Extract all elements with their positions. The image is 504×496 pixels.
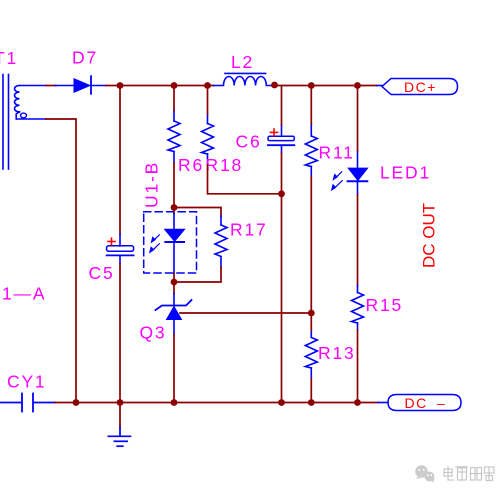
transformer T1 bottom pin <box>17 118 47 120</box>
resistor R17 <box>215 216 227 267</box>
wire: node into opto box <box>173 208 175 214</box>
wire: R6 bottom to opto node <box>173 163 175 208</box>
svg-text:1—A: 1—A <box>2 284 46 304</box>
resistor R15 <box>352 286 364 331</box>
transformer T1 top pin <box>20 85 47 87</box>
svg-text:R11: R11 <box>319 143 355 163</box>
wire: T1 bottom down left rail <box>46 119 76 403</box>
junction at R18 top <box>204 82 211 89</box>
svg-text:T1: T1 <box>0 48 18 68</box>
wire: R13 node to R13 top <box>310 313 312 331</box>
port DC+ <box>382 79 458 95</box>
svg-text:Q3: Q3 <box>140 323 167 343</box>
diode D7 <box>55 76 106 94</box>
wire: Q3 to R13 node <box>180 312 311 314</box>
junction at R11/R13 node <box>308 310 315 317</box>
svg-text:LED1: LED1 <box>380 162 431 182</box>
wire: opto cathode to lower node <box>173 274 175 283</box>
wire: LED1 cathode to R15 <box>357 195 359 286</box>
svg-text:R18: R18 <box>206 155 244 175</box>
junction bottom rail at ground <box>117 399 124 406</box>
wire: L2 to DC+ port <box>276 85 377 87</box>
opto U1-B dashed box <box>144 212 197 273</box>
wire: R17 top branch <box>174 208 221 217</box>
LED1 arrows <box>331 172 342 191</box>
junction at C5 top branch <box>117 82 124 89</box>
ground stub wire <box>119 403 121 428</box>
svg-text:DC OUT: DC OUT <box>420 203 439 268</box>
wire: D7 cathode to L2 <box>106 85 214 87</box>
junction at L2 right end <box>271 82 278 89</box>
junction at opto anode node <box>171 204 178 211</box>
wire: top rail to R18 <box>207 86 209 115</box>
wire: R13 bottom to bottom rail <box>310 379 312 403</box>
junction at opto cathode node <box>171 279 178 286</box>
LED LED1 <box>348 151 368 195</box>
ground symbol <box>108 428 130 447</box>
junction bottom rail at x=357.5 <box>354 399 361 406</box>
wire: top rail to C6 <box>281 86 283 126</box>
opto U1-B LED <box>165 214 185 274</box>
wire: top rail to R11 <box>310 86 312 125</box>
wire: Q3 anode to bottom rail <box>173 335 175 403</box>
junction bottom rail at x=311.3 <box>308 399 315 406</box>
svg-text:R13: R13 <box>318 343 356 363</box>
zener Q3 <box>156 294 192 335</box>
C6 plus sign <box>271 129 278 136</box>
svg-text:C5: C5 <box>89 263 115 283</box>
wire: R17 bottom branch <box>174 268 221 283</box>
capacitor CY1 <box>0 394 55 412</box>
svg-text:R17: R17 <box>230 220 268 240</box>
junction at C6 rail / R18 wire <box>278 190 285 197</box>
wire: opto node to Q3 <box>173 282 175 294</box>
transformer T1 phase dot <box>21 113 27 118</box>
resistor R11 <box>305 124 317 177</box>
svg-text:C6: C6 <box>236 132 262 152</box>
watermark text 电源联盟 (approximated strokes) <box>444 467 494 481</box>
junction at R6 top <box>171 82 178 89</box>
wire: R18 bottom L-shape to C6 rail <box>208 165 282 194</box>
svg-text:DC: DC <box>405 395 428 411</box>
svg-text:DC+: DC+ <box>404 79 437 95</box>
svg-text:U1-B: U1-B <box>142 161 162 208</box>
bottom rail wire <box>55 402 378 404</box>
capacitor C5 <box>107 234 134 264</box>
junction bottom rail at x=76 <box>73 399 80 406</box>
resistor R6 <box>168 111 180 164</box>
watermark icon <box>415 465 434 483</box>
wire: C5 bottom to ground rail <box>119 264 121 403</box>
svg-text:–: – <box>437 395 446 411</box>
junction at R11 top <box>308 82 315 89</box>
transformer T1 winding <box>15 86 20 120</box>
transformer T1 core <box>3 75 9 170</box>
wire: C5 top rail (x=120) <box>119 86 121 235</box>
port pin DC+ <box>377 85 382 87</box>
junction bottom rail at x=281.5 <box>278 399 285 406</box>
wire: R15 bottom to bottom rail <box>357 330 359 403</box>
port DC- <box>388 395 461 411</box>
wire: top rail to R6 <box>173 86 175 111</box>
svg-text:R15: R15 <box>366 295 404 315</box>
C5 plus sign <box>108 238 115 245</box>
capacitor C6 <box>268 125 294 153</box>
svg-text:D7: D7 <box>72 48 98 68</box>
wire: R11 bottom to Q3 node <box>310 177 312 314</box>
port pin DC- <box>378 402 388 404</box>
resistor R18 <box>202 114 214 165</box>
resistor R13 <box>305 331 317 379</box>
junction at LED1 top <box>354 82 361 89</box>
svg-text:R6: R6 <box>178 155 204 175</box>
wire: T1 top to D7 anode <box>46 85 56 87</box>
junction bottom rail at x=174 <box>171 399 178 406</box>
wire: top rail to LED1 <box>357 86 359 152</box>
wire: C6 bottom to bottom rail <box>281 153 283 403</box>
svg-text:CY1: CY1 <box>7 372 46 392</box>
svg-text:L2: L2 <box>231 52 254 72</box>
opto U1-B arrows <box>149 235 159 254</box>
inductor L2 <box>214 73 273 85</box>
